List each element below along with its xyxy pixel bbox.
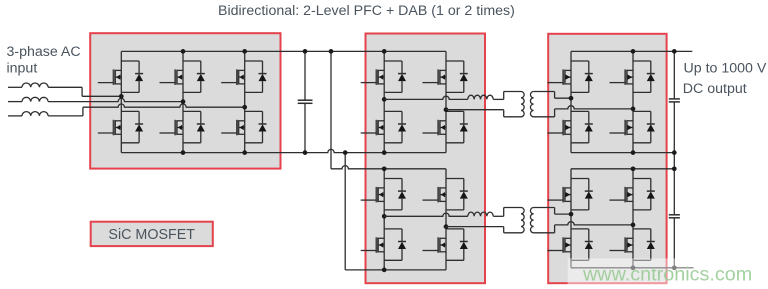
- wire bridge2 right mid to T2 primary bottom: [446, 226, 504, 228]
- body diode of Q20 (lower secondary bridge leg 1 low side): [571, 228, 589, 230]
- transistor Q5 (PFC leg 3 high side) (SiC MOSFET): [244, 51, 246, 107]
- wire bridge1 left mid to series inductor (hops right leg): [384, 96, 468, 99]
- junction C1 top: [303, 49, 308, 54]
- body diode of Q11 (upper secondary bridge leg 1 high side): [571, 60, 589, 62]
- junction leg 2 on mid rail: [181, 150, 186, 155]
- body diode of Q6 (PFC leg 3 low side): [245, 110, 263, 112]
- node upper primary bridge leg 2 midpoint: [444, 107, 449, 112]
- svg-text:input: input: [7, 60, 38, 76]
- inductor L2 (series DAB inductor): [468, 212, 493, 216]
- transistor Q11 (upper secondary bridge leg 1 high side) (SiC MOSFET): [570, 51, 572, 98]
- wire feeder from mid rail to lower bridge bottom: [344, 153, 346, 270]
- wire L1 to transformer T1 primary top: [493, 98, 504, 100]
- wire phase B to bridge leg 2 (hops leg 1): [48, 98, 183, 101]
- body diode of Q18 (lower primary bridge leg 2 low side): [446, 228, 464, 230]
- transformer T2 primary winding: [521, 208, 524, 233]
- body diode of Q7 (upper primary bridge leg 1 high side): [384, 60, 402, 62]
- transistor Q14 (upper secondary bridge leg 2 low side) (SiC MOSFET): [632, 109, 634, 153]
- transistor Q1 (PFC leg 1 high side) (SiC MOSFET): [120, 51, 122, 96]
- wire secondary top rail: [571, 50, 674, 52]
- body diode of Q10 (upper primary bridge leg 2 low side): [446, 110, 464, 112]
- junction output bottom: [672, 265, 677, 270]
- svg-text:3-phase AC: 3-phase AC: [7, 44, 81, 60]
- wire feeder from + rail to lower bridge: [330, 51, 332, 168]
- body diode of Q4 (PFC leg 2 low side): [183, 110, 201, 112]
- junction secondary right leg mid rail: [631, 150, 636, 155]
- junction lower secondary right leg top rail: [631, 166, 636, 171]
- body diode of Q13 (upper secondary bridge leg 2 high side): [633, 60, 651, 62]
- transformer T1 secondary winding: [530, 92, 533, 117]
- junction output mid 2: [672, 166, 677, 171]
- svg-text:www.cntronics.com: www.cntronics.com: [582, 264, 752, 286]
- body diode of Q14 (upper secondary bridge leg 2 low side): [633, 110, 651, 112]
- transistor Q18 (lower primary bridge leg 2 low side) (SiC MOSFET): [445, 227, 447, 270]
- body diode of Q15 (lower primary bridge leg 1 high side): [384, 178, 402, 180]
- junction lower primary leg on its top rail: [382, 166, 387, 171]
- AC line phase A lead: [8, 86, 22, 88]
- wire mid DC rail (-): [121, 149, 446, 152]
- wire T2 secondary bottom to lower secondary bridge right mid (hops left leg): [534, 232, 555, 234]
- inductor phase C: [22, 112, 48, 116]
- junction primary leg on top rail: [382, 49, 387, 54]
- transistor Q3 (PFC leg 2 high side) (SiC MOSFET): [182, 51, 184, 101]
- transistor Q8 (upper primary bridge leg 1 low side) (SiC MOSFET): [383, 99, 385, 152]
- body diode of Q1 (PFC leg 1 high side): [121, 60, 139, 62]
- transistor Q21 (lower secondary bridge leg 2 high side) (SiC MOSFET): [632, 169, 634, 225]
- wire DC output positive terminal: [674, 50, 692, 52]
- transistor Q16 (lower primary bridge leg 1 low side) (SiC MOSFET): [383, 216, 385, 270]
- transistor Q15 (lower primary bridge leg 1 high side) (SiC MOSFET): [383, 169, 385, 217]
- transistor Q10 (upper primary bridge leg 2 low side) (SiC MOSFET): [445, 110, 447, 153]
- wire DC output negative terminal: [674, 267, 693, 269]
- body diode of Q5 (PFC leg 3 high side): [245, 60, 263, 62]
- svg-text:Bidirectional: 2-Level PFC + D: Bidirectional: 2-Level PFC + DAB (1 or 2…: [218, 3, 515, 19]
- svg-text:SiC MOSFET: SiC MOSFET: [108, 227, 195, 243]
- node upper secondary bridge leg 1 midpoint: [569, 96, 574, 101]
- transistor Q20 (lower secondary bridge leg 1 low side) (SiC MOSFET): [570, 214, 572, 268]
- transistor Q2 (PFC leg 1 low side) (SiC MOSFET): [120, 96, 122, 152]
- capacitor C1 (DC link): [304, 51, 306, 100]
- body diode of Q19 (lower secondary bridge leg 1 high side): [571, 178, 589, 180]
- junction lower primary leg on its bottom rail: [382, 268, 387, 273]
- DAB secondary bridges block (gray box, red border): [548, 34, 666, 283]
- body diode of Q22 (lower secondary bridge leg 2 low side): [633, 228, 651, 230]
- junction lower secondary right leg bottom rail: [631, 265, 636, 270]
- junction C1 bottom: [303, 150, 308, 155]
- inductor phase B: [22, 97, 48, 101]
- wire bridge2 left mid to series inductor (hops right leg): [384, 213, 468, 216]
- transistor Q22 (lower secondary bridge leg 2 low side) (SiC MOSFET): [632, 225, 634, 268]
- DAB primary bridges block (gray box, red border): [366, 34, 486, 284]
- junction feeder on top rail: [329, 49, 334, 54]
- wire output rail vertical: [673, 51, 675, 99]
- wire secondary mid rail: [571, 152, 674, 154]
- transistor Q17 (lower primary bridge leg 2 high side) (SiC MOSFET): [445, 169, 447, 227]
- wire T2 secondary top to lower secondary bridge left mid: [534, 207, 555, 209]
- node upper primary bridge leg 1 midpoint: [382, 97, 387, 102]
- transistor Q13 (upper secondary bridge leg 2 high side) (SiC MOSFET): [632, 51, 634, 109]
- capacitor C2 (upper output): [669, 98, 680, 100]
- node lower primary bridge leg 1 midpoint: [382, 214, 387, 219]
- node lower primary bridge leg 2 midpoint: [444, 224, 449, 229]
- node lower secondary bridge leg 2 midpoint: [631, 223, 636, 228]
- wire lower secondary top rail: [571, 168, 674, 170]
- transistor Q6 (PFC leg 3 low side) (SiC MOSFET): [244, 107, 246, 152]
- junction output mid 1: [672, 150, 677, 155]
- PFC converter block (gray box, red border): [90, 33, 280, 168]
- transistor Q9 (upper primary bridge leg 2 high side) (SiC MOSFET): [445, 51, 447, 109]
- transformer T1 primary winding: [521, 92, 524, 117]
- node phase C midpoint: [242, 105, 247, 110]
- body diode of Q9 (upper primary bridge leg 2 high side): [446, 60, 464, 62]
- legend box SiC MOSFET: [91, 222, 213, 246]
- svg-text:Up to 1000 V: Up to 1000 V: [684, 60, 767, 76]
- junction primary leg on mid rail: [382, 150, 387, 155]
- node phase A midpoint: [119, 94, 124, 99]
- body diode of Q16 (lower primary bridge leg 1 low side): [384, 228, 402, 230]
- wire lower secondary bottom rail: [571, 267, 674, 269]
- junction leg 2 on top rail: [181, 49, 186, 54]
- body diode of Q17 (lower primary bridge leg 2 high side): [446, 178, 464, 180]
- wire phase A to bridge leg 1: [48, 86, 82, 88]
- capacitor C3 (lower output): [669, 214, 680, 216]
- node phase B midpoint: [181, 99, 186, 104]
- node upper secondary bridge leg 2 midpoint: [631, 107, 636, 112]
- node lower secondary bridge leg 1 midpoint: [569, 212, 574, 217]
- wire T1 secondary bottom to secondary bridge right mid (hops left leg): [534, 116, 555, 118]
- transistor Q19 (lower secondary bridge leg 1 high side) (SiC MOSFET): [570, 169, 572, 214]
- junction secondary right leg top rail: [631, 49, 636, 54]
- junction output top: [672, 49, 677, 54]
- wire phase C to bridge leg 3 (hops legs 1,2): [48, 115, 83, 117]
- AC line phase B lead: [8, 101, 22, 103]
- junction feeder on mid rail: [343, 150, 348, 155]
- body diode of Q21 (lower secondary bridge leg 2 high side): [633, 178, 651, 180]
- transformer T2 secondary winding: [530, 208, 533, 233]
- body diode of Q8 (upper primary bridge leg 1 low side): [384, 110, 402, 112]
- wire T1 secondary top to secondary bridge left mid: [534, 91, 555, 93]
- wire top DC rail (+): [121, 50, 446, 52]
- body diode of Q12 (upper secondary bridge leg 1 low side): [571, 110, 589, 112]
- watermark band: [568, 258, 768, 289]
- wire bridge1 right mid to T1 primary bottom: [446, 109, 504, 111]
- AC line phase C lead: [8, 115, 22, 117]
- transistor Q12 (upper secondary bridge leg 1 low side) (SiC MOSFET): [570, 98, 572, 152]
- inductor L1 (series DAB inductor): [468, 95, 493, 99]
- body diode of Q3 (PFC leg 2 high side): [183, 60, 201, 62]
- wire L2 to transformer T2 primary top: [493, 215, 504, 217]
- body diode of Q2 (PFC leg 1 low side): [121, 110, 139, 112]
- transistor Q7 (upper primary bridge leg 1 high side) (SiC MOSFET): [383, 51, 385, 99]
- junction leg 3 on top rail: [242, 49, 247, 54]
- svg-text:DC output: DC output: [683, 81, 747, 97]
- inductor phase A: [22, 83, 48, 87]
- junction leg 3 on mid rail: [242, 150, 247, 155]
- transistor Q4 (PFC leg 2 low side) (SiC MOSFET): [182, 102, 184, 153]
